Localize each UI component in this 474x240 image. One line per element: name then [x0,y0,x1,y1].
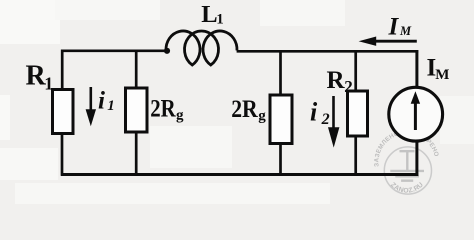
svg-text:i: i [310,97,318,126]
wire branch3 vertical lower [279,144,282,176]
resistor R2 [348,91,368,136]
current source IM [389,87,443,141]
stamp inner circle [384,147,431,194]
wire top right segment [237,50,419,53]
wire left vertical upper [61,50,64,90]
svg-text:i: i [98,87,105,114]
stamp text ring arc [378,134,435,167]
svg-text:1: 1 [107,98,115,114]
svg-text:1: 1 [44,73,53,93]
wire branch4 vertical upper [354,50,357,91]
resistor 2Rg left [126,88,148,132]
wire branch4 vertical lower [354,136,357,176]
watermark stamp (under ink) [384,147,431,194]
svg-text:2R: 2R [150,96,176,123]
svg-text:M: M [435,67,449,83]
wire right vertical lower [415,141,418,176]
current source arrow [414,102,417,131]
svg-text:2: 2 [321,111,330,128]
current arrow i2 [332,96,335,131]
arrow IM top [375,40,417,43]
stamp ground symbol [390,151,424,181]
wire branch2 vertical upper [135,50,138,88]
inductor L1 coil [166,31,237,65]
resistor R1 [53,90,74,134]
wire branch2 vertical lower [135,132,138,176]
resistor 2Rg right [270,95,292,144]
svg-text:g: g [176,107,184,123]
svg-text:L: L [201,1,217,28]
wire left vertical lower [61,134,64,176]
svg-text:I: I [388,14,400,41]
svg-text:g: g [258,108,266,124]
current arrow i1 [90,87,93,113]
stamp text bottom arc [389,184,424,193]
wire right vertical upper [415,50,418,88]
node dot at coil left [164,48,170,54]
svg-text:R: R [327,67,346,94]
svg-text:2R: 2R [231,96,258,123]
wire branch3 vertical upper [279,50,282,95]
svg-text:M: M [399,24,412,38]
svg-text:2: 2 [344,77,353,96]
wire bottom [61,173,418,176]
svg-text:1: 1 [216,12,224,28]
wire top left segment [61,49,166,52]
